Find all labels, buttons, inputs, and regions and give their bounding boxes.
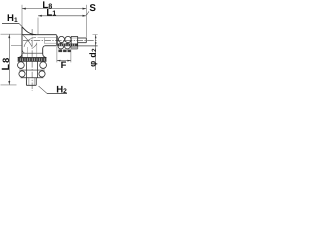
H2 underline — [47, 92, 67, 94]
lower nut center left line — [26, 61, 28, 77]
bottom stub left edge — [25, 78, 27, 86]
bottom stub inner lines — [29, 78, 34, 85]
bore bottom wall — [44, 42, 56, 44]
tube top edge — [22, 34, 57, 36]
lower nut ball right 2 — [39, 71, 45, 77]
lower nut ball left 1 — [18, 62, 25, 69]
phi d2 dimension line — [95, 35, 97, 70]
lower knurl band segments — [58, 50, 62, 53]
bore inner fillet — [33, 43, 37, 48]
body outer corner chamfer and blend arc — [22, 27, 36, 35]
extension line L1 — [37, 18, 39, 35]
body step ring — [23, 52, 43, 54]
left groove fillet — [22, 49, 25, 53]
horizontal centerline — [23, 39, 98, 41]
dimension line L8 left — [8, 34, 10, 85]
left dim extension top — [1, 33, 23, 35]
nut dark band — [57, 44, 77, 47]
body left edge — [21, 27, 23, 58]
dimension line L1 — [38, 15, 86, 17]
H1 underline — [2, 22, 19, 24]
sleeve joint line — [44, 38, 46, 44]
inner corner fillet — [43, 46, 45, 49]
lower nut center right line — [36, 61, 38, 77]
bore cone line — [23, 35, 32, 47]
nut ball bottom 2 — [65, 43, 71, 49]
left dim extension bottom — [1, 84, 17, 86]
flange flare right — [43, 54, 47, 57]
nut ball top 2 — [65, 36, 71, 42]
bottom stub end — [26, 84, 36, 86]
vertical centerline — [31, 29, 33, 91]
bottom stub right edge — [35, 78, 37, 86]
phi d2 extension top — [93, 34, 98, 36]
nut step washer — [56, 35, 57, 46]
hex nut bottom — [71, 48, 78, 50]
stub top edge — [78, 37, 87, 39]
F extension left — [56, 46, 58, 62]
svg-text:F: F — [61, 59, 67, 70]
phi d2 extension bottom — [78, 45, 98, 47]
mystery extension at tube bottom — [11, 45, 22, 47]
stub bottom edge — [78, 42, 87, 44]
extension line L8 left — [21, 5, 23, 27]
hex nut left edge — [70, 36, 72, 49]
lower nut ball right 1 — [40, 62, 47, 69]
lower nut ball left 2 — [19, 71, 25, 77]
stub end — [85, 38, 87, 43]
bore top wall — [38, 37, 57, 39]
hex nut inner lines — [71, 46, 78, 48]
flange hex band — [18, 57, 47, 59]
bore bend curve outer — [24, 37, 36, 47]
hex nut top — [71, 35, 78, 37]
lower nut row boundary — [19, 69, 45, 71]
svg-text:L1: L1 — [46, 7, 56, 18]
F dimension line — [57, 60, 71, 62]
H2 leader — [39, 86, 47, 93]
vertical bore left wall — [26, 47, 28, 57]
flange flare left — [18, 54, 22, 57]
svg-text:S: S — [89, 3, 96, 14]
body right edge — [42, 48, 44, 54]
nut ball top 1 — [58, 36, 64, 42]
extension line right end — [85, 5, 87, 38]
tube bottom edge — [45, 45, 56, 47]
lower nut bottom line — [21, 77, 44, 79]
nut ball bottom 1 — [58, 43, 64, 49]
dimension line L8 top — [22, 8, 86, 10]
hex nut right edge — [77, 36, 79, 49]
F extension right — [70, 49, 72, 62]
vertical bore right wall — [36, 43, 38, 58]
background — [0, 0, 100, 100]
leader S — [87, 11, 89, 15]
H1 leader — [19, 23, 23, 28]
svg-text:L8: L8 — [0, 57, 12, 71]
